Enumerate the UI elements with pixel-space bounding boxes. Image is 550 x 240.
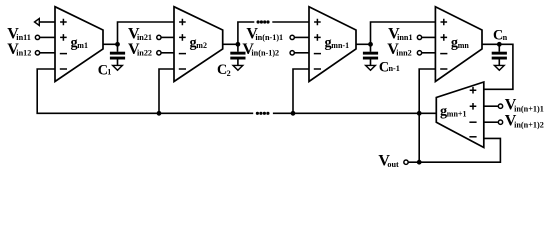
svg-text:mn+1: mn+1 (447, 109, 467, 118)
svg-text:in(n+1)2: in(n+1)2 (514, 120, 544, 129)
svg-text:inn2: inn2 (396, 48, 411, 57)
svg-text:1: 1 (107, 67, 111, 76)
svg-text:m2: m2 (196, 41, 207, 50)
svg-text:n: n (503, 33, 508, 42)
svg-text:inn1: inn1 (397, 33, 412, 42)
svg-text:2: 2 (227, 69, 231, 78)
svg-text:out: out (387, 160, 399, 169)
svg-text:m1: m1 (77, 41, 88, 50)
svg-text:mn: mn (458, 41, 470, 50)
svg-text:in12: in12 (16, 48, 31, 57)
svg-text:in22: in22 (137, 48, 152, 57)
svg-text:in(n-1)2: in(n-1)2 (251, 48, 279, 57)
svg-text:in(n-1)1: in(n-1)1 (255, 33, 283, 42)
svg-text:n-1: n-1 (389, 64, 400, 73)
svg-text:in(n+1)1: in(n+1)1 (514, 104, 544, 113)
svg-text:mn-1: mn-1 (331, 41, 349, 50)
